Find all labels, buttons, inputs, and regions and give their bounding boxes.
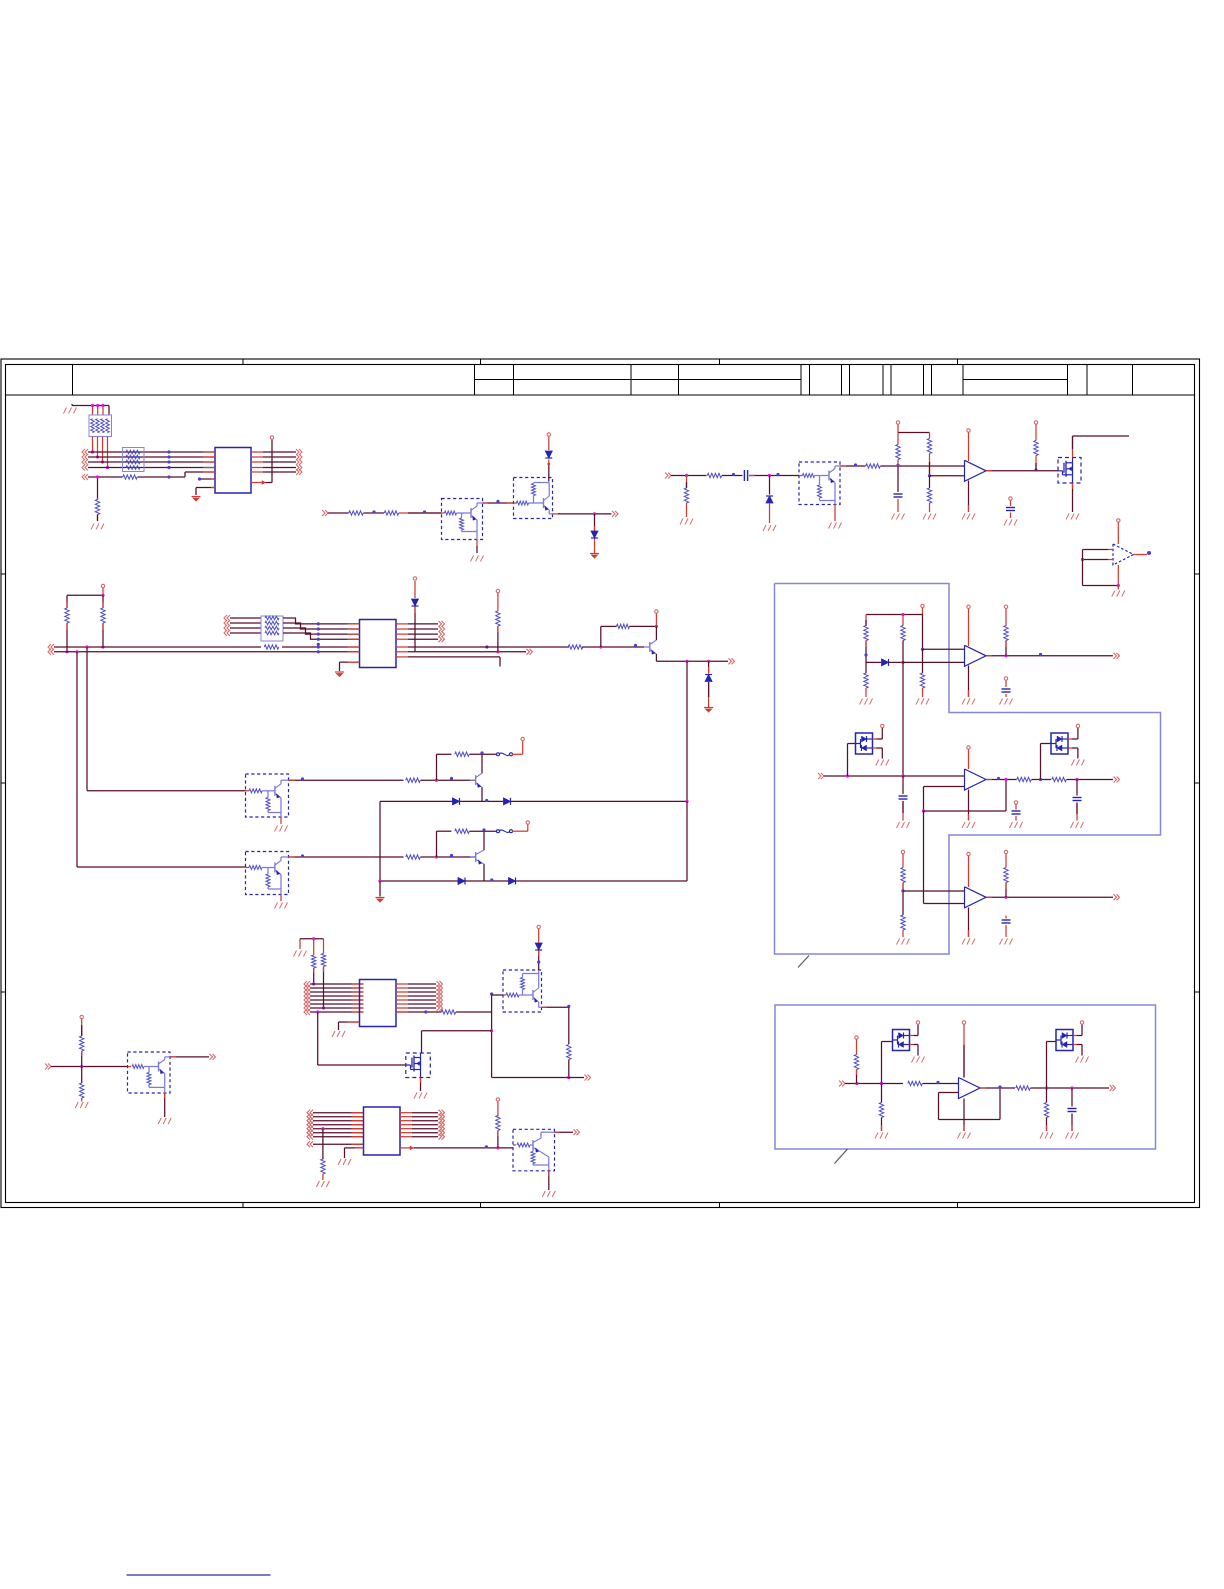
wire	[421, 779, 476, 781]
resistor R4	[384, 511, 399, 515]
wire	[263, 467, 296, 469]
wire	[897, 460, 899, 467]
wire	[414, 581, 416, 598]
wire	[328, 512, 349, 514]
wire	[408, 1007, 436, 1009]
ground	[680, 519, 693, 525]
wire	[408, 995, 436, 997]
MOSFET Q10 (in dashed box)	[406, 1053, 431, 1078]
wire	[924, 903, 965, 905]
power pin decoupling	[1014, 801, 1017, 810]
resistor R28	[901, 868, 905, 883]
wire	[54, 646, 261, 648]
op-amp U5	[965, 645, 987, 666]
wire	[1005, 694, 1007, 697]
wire	[408, 1003, 436, 1005]
transistor Q6 (in dashed box)	[246, 774, 289, 817]
ground	[64, 404, 77, 414]
wire	[412, 1132, 438, 1134]
wire	[686, 503, 688, 517]
capacitor C5	[899, 796, 908, 799]
junction	[1004, 654, 1007, 657]
wire	[923, 1083, 959, 1085]
resistor R1	[123, 475, 138, 479]
wire	[882, 1042, 893, 1084]
wire	[824, 775, 903, 777]
transistor Q3 (digital transistor in dashed box)	[799, 462, 840, 505]
resistor R15	[496, 611, 500, 626]
wire	[749, 475, 799, 477]
junction	[685, 800, 688, 803]
wire	[1083, 549, 1109, 551]
transistor Q11 (digital transistor in dashed box)	[503, 970, 542, 1012]
IC U8	[360, 980, 397, 1027]
junction	[854, 463, 857, 466]
resistor R33	[441, 1010, 456, 1014]
junction	[424, 1010, 427, 1013]
wire	[655, 614, 657, 627]
wire	[686, 801, 688, 881]
wire	[963, 1099, 965, 1132]
power pin VCC	[1004, 850, 1007, 853]
wire	[81, 1067, 83, 1084]
junction	[1075, 778, 1078, 781]
resistor R26	[1017, 777, 1032, 781]
wire	[1005, 925, 1007, 937]
wire	[310, 983, 364, 985]
wire	[656, 654, 728, 661]
resistor R24	[920, 673, 924, 688]
wire	[708, 682, 710, 707]
capacitor C1	[744, 470, 747, 481]
wire	[902, 883, 904, 916]
resistor R6	[707, 473, 722, 477]
junction	[450, 854, 453, 857]
wire	[196, 488, 215, 496]
resistor R13	[101, 608, 105, 623]
pin stubs U4 left	[348, 624, 360, 652]
wire	[54, 651, 360, 653]
capacitor C4	[1002, 689, 1011, 692]
capacitor C3	[1006, 508, 1015, 511]
pin arrow U1	[251, 481, 266, 485]
wire	[67, 588, 103, 595]
ground	[923, 514, 936, 520]
resistor R41	[1044, 1103, 1048, 1118]
ground	[763, 525, 776, 531]
wire	[77, 866, 246, 868]
ground	[335, 672, 344, 677]
wire	[924, 780, 1007, 812]
junction	[490, 1029, 493, 1032]
port chevron	[585, 1075, 591, 1081]
wire	[408, 628, 438, 630]
sheet symbol designator slash	[798, 956, 809, 968]
junction	[91, 404, 105, 407]
wire	[848, 744, 856, 777]
resistor R34	[567, 1045, 571, 1060]
capacitor C7	[1012, 811, 1021, 814]
wire	[230, 617, 261, 619]
junction	[864, 653, 867, 656]
op-amp U3 (dashed)	[1113, 544, 1134, 565]
junction	[599, 645, 602, 648]
wire	[408, 623, 438, 625]
wire	[568, 1060, 570, 1078]
resistor R22	[864, 626, 868, 641]
junction	[1045, 1086, 1048, 1089]
wire	[929, 476, 931, 488]
junction	[1117, 584, 1120, 587]
wire	[263, 451, 296, 453]
transistor Q7	[470, 773, 482, 787]
wire	[902, 641, 904, 777]
wire	[408, 646, 569, 648]
wire	[582, 646, 644, 648]
wire	[865, 688, 867, 697]
wire	[924, 786, 965, 788]
power pin VCC	[270, 436, 273, 439]
ground	[542, 1191, 555, 1197]
wire	[630, 625, 657, 627]
wire	[380, 880, 687, 882]
wire	[902, 615, 904, 626]
diode D2	[591, 531, 598, 538]
wire	[414, 1147, 514, 1149]
resistor R12	[65, 608, 69, 623]
wire	[263, 461, 296, 463]
resistor R11	[1034, 441, 1038, 456]
junction	[846, 774, 849, 777]
ground	[275, 826, 288, 832]
wire	[1071, 1088, 1073, 1107]
wire	[923, 811, 925, 904]
ground	[1071, 760, 1084, 766]
wire	[399, 512, 442, 514]
op-amp U7	[965, 887, 987, 908]
junction	[732, 473, 735, 476]
wire	[512, 741, 523, 754]
junction	[85, 645, 88, 648]
ground	[1066, 1133, 1079, 1139]
power pin VCC	[962, 1021, 965, 1024]
ground	[1076, 1057, 1089, 1063]
wire	[379, 881, 381, 897]
wire	[313, 968, 315, 984]
resistor R43	[80, 1036, 84, 1051]
wire	[881, 1118, 883, 1132]
wire	[722, 475, 743, 477]
junction	[1147, 551, 1151, 555]
wire	[313, 1136, 364, 1138]
MOSFET Q4 (in dashed box)	[1058, 458, 1081, 484]
wire	[408, 651, 526, 653]
wire	[310, 995, 364, 997]
transistor Q13 (digital transistor in dashed box)	[128, 1052, 171, 1093]
ground	[876, 760, 889, 766]
wire	[88, 467, 215, 469]
wire	[313, 1112, 364, 1114]
wire	[594, 514, 596, 531]
wire	[88, 476, 123, 478]
resistor pack RP3	[261, 616, 283, 641]
wire	[263, 456, 296, 458]
wire	[102, 623, 104, 647]
wire	[492, 1077, 584, 1079]
wire	[1005, 916, 1007, 919]
ground	[916, 699, 929, 705]
resistor R25	[1004, 626, 1008, 641]
ground	[897, 939, 910, 945]
power pin VCC	[967, 605, 970, 608]
wire	[1076, 780, 1078, 796]
power pin VCC	[967, 429, 970, 432]
dual diode D14 (in box)	[893, 1030, 910, 1051]
junction	[435, 855, 438, 858]
wire	[491, 995, 493, 1012]
junction	[423, 510, 426, 513]
wire	[313, 1124, 364, 1126]
wire	[834, 505, 836, 522]
wire	[81, 1098, 83, 1102]
power pin VCC	[1080, 1021, 1083, 1024]
wire	[930, 475, 965, 477]
wire	[408, 638, 438, 640]
resistor R8	[896, 445, 900, 460]
pin stubs U9 right	[400, 1113, 412, 1137]
IC U9	[364, 1107, 401, 1155]
wire	[476, 540, 478, 554]
ground	[158, 1118, 171, 1124]
ground	[1004, 520, 1017, 526]
resistor R38	[879, 1103, 883, 1118]
wire	[266, 440, 273, 483]
transistor Q2 (digital transistor in dashed box)	[514, 478, 553, 519]
wire	[483, 831, 485, 850]
port chevron input	[839, 1081, 845, 1087]
capacitor C8	[1002, 920, 1011, 923]
wire	[313, 1128, 364, 1130]
wire	[283, 633, 360, 639]
junction	[372, 510, 375, 513]
junction	[485, 1145, 488, 1148]
resistor R37	[854, 1055, 858, 1070]
resistor R36	[496, 1116, 500, 1131]
wire	[491, 1012, 493, 1078]
junction	[928, 474, 931, 477]
junction	[537, 960, 540, 963]
junction	[1034, 468, 1037, 471]
wire	[1010, 513, 1012, 519]
wire	[408, 991, 436, 993]
resistor R40	[1016, 1086, 1031, 1090]
wire	[380, 800, 687, 802]
wire	[364, 512, 385, 514]
wire	[497, 1102, 499, 1117]
wire	[470, 753, 497, 755]
wire	[1134, 554, 1148, 556]
sheet symbol designator slash 2	[835, 1149, 848, 1164]
junction	[485, 645, 488, 648]
wire	[483, 502, 514, 504]
power pin VCC	[101, 584, 104, 587]
ground	[590, 554, 599, 559]
wire	[1046, 1088, 1048, 1103]
ground	[962, 939, 975, 945]
wire	[902, 930, 904, 937]
port chevron	[1114, 777, 1120, 783]
wire	[437, 831, 452, 857]
port chevrons U9 right	[439, 1110, 445, 1140]
op-amp U10	[959, 1078, 981, 1099]
resistor R19	[455, 752, 470, 756]
wire	[889, 661, 903, 663]
ground	[962, 514, 975, 520]
wire	[313, 1120, 364, 1122]
resistor pack RP2	[123, 448, 145, 472]
transistor Q8 (in dashed box)	[246, 852, 289, 895]
wire	[594, 539, 596, 554]
junction	[321, 1127, 324, 1130]
port chevrons bus I left	[307, 1110, 313, 1148]
wire	[555, 1131, 574, 1133]
wire	[512, 825, 528, 832]
wire	[76, 652, 78, 867]
power pin VCC	[521, 737, 524, 740]
wire	[1005, 854, 1007, 868]
wire	[414, 607, 416, 652]
power pin VCC	[537, 925, 540, 928]
ground	[316, 1181, 329, 1187]
wire	[897, 433, 899, 445]
ground	[897, 822, 910, 828]
ground	[294, 951, 307, 957]
power pin VCC	[547, 433, 550, 436]
border zone ticks bottom	[243, 1203, 958, 1208]
wire	[300, 939, 324, 949]
junction	[316, 1010, 319, 1013]
wire	[902, 776, 904, 794]
wire	[66, 623, 68, 652]
junction	[312, 937, 315, 940]
junction	[1004, 896, 1007, 899]
port P3 chevron	[322, 510, 328, 516]
wire	[897, 499, 899, 512]
wire	[1068, 728, 1078, 739]
pin stubs U8 right	[396, 984, 408, 1008]
resistor R27	[1052, 777, 1067, 781]
junction	[936, 1081, 939, 1084]
ground	[91, 524, 104, 530]
junction	[301, 777, 304, 780]
wire	[902, 854, 904, 868]
resistor R14	[264, 645, 279, 649]
wire	[866, 661, 881, 663]
junction	[1039, 653, 1042, 656]
wire	[323, 967, 325, 1009]
junction	[65, 650, 68, 653]
wire	[283, 618, 360, 624]
port chevrons U4 right	[439, 621, 445, 642]
wire	[456, 1011, 492, 1013]
wire	[939, 1092, 959, 1094]
wire	[538, 951, 540, 971]
junction	[496, 500, 499, 503]
wire	[412, 1116, 438, 1118]
pin stub	[1108, 549, 1113, 551]
junction	[593, 512, 596, 515]
junction	[567, 1076, 570, 1079]
wire	[412, 1112, 438, 1114]
wire	[1117, 523, 1119, 545]
power pin VCC	[921, 604, 924, 607]
wire	[97, 477, 99, 500]
wire	[310, 987, 364, 989]
junction	[312, 982, 315, 985]
junction	[901, 889, 904, 892]
ground	[192, 497, 201, 502]
wire	[548, 460, 550, 482]
wire	[568, 1007, 570, 1044]
jumper W1	[497, 753, 513, 756]
junction	[855, 1082, 858, 1085]
diode D1	[545, 451, 552, 458]
wire	[408, 633, 438, 635]
wire	[968, 433, 970, 462]
wire	[1035, 425, 1037, 441]
resistor R9	[927, 439, 931, 454]
wire	[856, 1040, 858, 1055]
wire	[1068, 748, 1078, 759]
power pin VCC	[855, 1036, 858, 1039]
hyperlink underline	[127, 1574, 271, 1576]
wire	[873, 728, 883, 739]
wire	[968, 908, 970, 938]
wire	[323, 939, 325, 954]
resistor pack RP1	[89, 415, 112, 437]
wire	[93, 437, 108, 468]
wire	[492, 994, 503, 996]
junction	[91, 450, 109, 469]
port chevrons U8 right	[437, 981, 443, 1011]
junction	[998, 1085, 1001, 1088]
junction	[547, 463, 550, 466]
wire	[1071, 1114, 1073, 1132]
transistor Q1 (digital transistor in dashed box)	[442, 499, 483, 540]
wire	[86, 647, 88, 791]
power pin decoupling	[1009, 497, 1012, 506]
ground	[1112, 591, 1125, 597]
wire	[939, 1088, 1001, 1120]
power pin VCC	[80, 1015, 83, 1018]
ground	[1040, 1133, 1053, 1139]
diode D7	[504, 798, 511, 805]
pin stubs U1 right	[251, 452, 263, 472]
wire	[408, 987, 436, 989]
transistor Q5	[644, 640, 656, 654]
wire	[422, 1031, 492, 1053]
wire	[873, 748, 883, 759]
power pin VCC	[881, 724, 884, 727]
wire	[986, 779, 1017, 781]
wire	[1083, 559, 1109, 561]
wire	[968, 750, 970, 770]
junction	[496, 650, 499, 653]
wire	[986, 655, 1113, 657]
resistor R42	[901, 626, 905, 641]
transistor Q9	[470, 850, 484, 864]
junction	[485, 799, 488, 802]
